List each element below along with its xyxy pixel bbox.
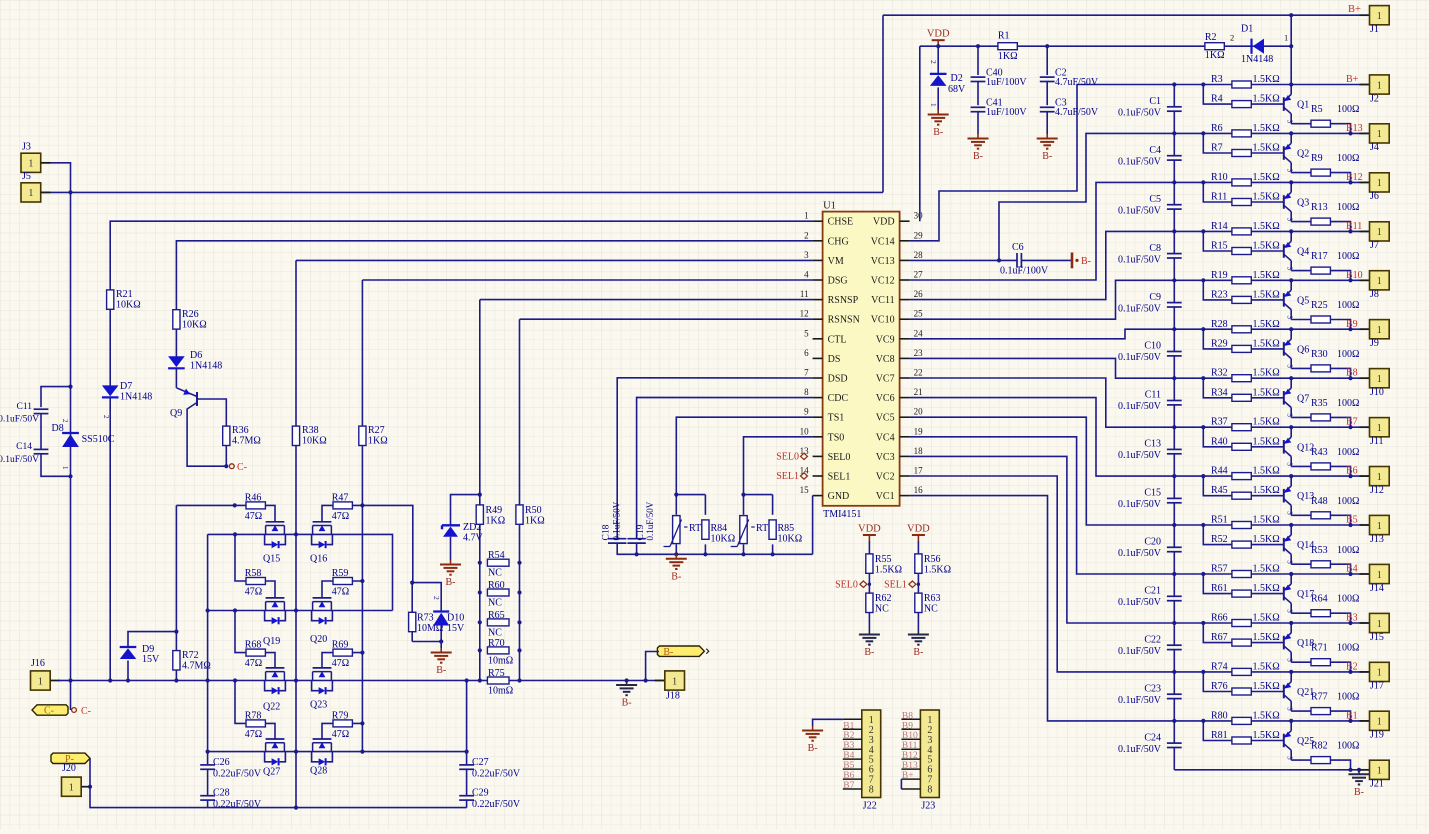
svg-text:R14: R14 bbox=[1211, 221, 1228, 232]
resistor R79 47ohm bbox=[333, 720, 352, 727]
svg-text:J7: J7 bbox=[1370, 240, 1379, 251]
svg-text:D8: D8 bbox=[52, 423, 64, 434]
svg-text:R64: R64 bbox=[1311, 594, 1328, 605]
wire R26 to D6 bbox=[175, 329, 177, 357]
svg-text:1.5KΩ: 1.5KΩ bbox=[924, 565, 951, 576]
svg-text:10mΩ: 10mΩ bbox=[488, 686, 513, 697]
junction R65 left bbox=[478, 620, 482, 624]
transistor Q19 MOSFET bbox=[266, 597, 285, 599]
svg-text:D2: D2 bbox=[951, 73, 963, 84]
svg-text:100Ω: 100Ω bbox=[1337, 349, 1359, 360]
pin 26 VC11 bbox=[900, 299, 910, 301]
svg-text:28: 28 bbox=[914, 250, 924, 260]
svg-text:B8: B8 bbox=[902, 711, 913, 721]
svg-text:VDD: VDD bbox=[873, 217, 895, 228]
ground B- under C3 bbox=[1046, 134, 1048, 139]
pin 15 GND bbox=[813, 495, 823, 497]
svg-text:VC8: VC8 bbox=[876, 354, 895, 365]
connector J15 bbox=[1360, 622, 1370, 624]
pin 6 DS bbox=[813, 357, 823, 359]
junction rail1 x296 bbox=[294, 532, 298, 536]
wire VM pin3 to x=296 vertical bbox=[296, 259, 813, 261]
wire cell bus segment 3 bbox=[1173, 231, 1175, 253]
wire cell bus segment 7 bbox=[1173, 427, 1175, 449]
svg-text:1.5KΩ: 1.5KΩ bbox=[1253, 661, 1280, 672]
resistor R3 1.5K bbox=[1232, 81, 1251, 88]
junction Q18 collector bbox=[1289, 621, 1293, 625]
capacitor C19 0.1uF/50V bbox=[627, 538, 645, 540]
svg-text:R29: R29 bbox=[1211, 338, 1228, 349]
ground B- under D10 bbox=[440, 648, 442, 653]
wire pin30 VDD riser bbox=[919, 46, 921, 221]
junction Q14 collector bbox=[1289, 523, 1293, 527]
junction gate row4 rail bbox=[233, 678, 237, 682]
junction D10 bottom bbox=[439, 639, 443, 643]
svg-text:VC6: VC6 bbox=[876, 393, 895, 404]
pin 5 CTL bbox=[813, 338, 823, 340]
svg-text:47Ω: 47Ω bbox=[332, 658, 349, 669]
resistor R54 NC bbox=[487, 559, 509, 566]
resistor R44 1.5K bbox=[1232, 473, 1251, 480]
svg-text:B-: B- bbox=[913, 647, 923, 658]
wire R15 branch bbox=[1203, 231, 1232, 251]
svg-text:Q28: Q28 bbox=[310, 766, 327, 777]
wire cell row B10 bbox=[1174, 279, 1369, 281]
wire gate bus row3 left bbox=[235, 611, 275, 668]
pin 20 VC5 bbox=[900, 416, 910, 418]
wire ZD2 to R49 rail bbox=[451, 495, 480, 526]
svg-text:R48: R48 bbox=[1311, 496, 1328, 507]
pin 19 VC4 bbox=[900, 436, 910, 438]
resistor R5 100ohm bbox=[1291, 123, 1311, 125]
svg-text:C1: C1 bbox=[1149, 96, 1161, 107]
svg-text:1: 1 bbox=[1377, 374, 1382, 385]
svg-text:0.1uF/50V: 0.1uF/50V bbox=[0, 415, 39, 425]
svg-text:1.5KΩ: 1.5KΩ bbox=[1253, 270, 1280, 281]
svg-text:0.1uF/50V: 0.1uF/50V bbox=[1118, 646, 1162, 657]
capacitor C28 0.22uF/50V bbox=[200, 795, 215, 797]
svg-text:VC4: VC4 bbox=[876, 432, 895, 443]
svg-text:R80: R80 bbox=[1211, 710, 1228, 721]
transistor Q1 PNP bbox=[1283, 97, 1285, 111]
svg-text:0.1uF/50V: 0.1uF/50V bbox=[1118, 205, 1162, 216]
resistor R69 47ohm bbox=[333, 649, 352, 656]
svg-text:1.5KΩ: 1.5KΩ bbox=[1253, 564, 1280, 575]
wire VC13 pin28 stub to C6 node bbox=[910, 259, 999, 261]
wire rail2 bbox=[208, 610, 393, 612]
svg-text:R58: R58 bbox=[245, 568, 262, 579]
junction Q25 collector bbox=[1289, 719, 1293, 723]
svg-text:R73: R73 bbox=[417, 613, 434, 624]
flag B- net bbox=[657, 646, 704, 656]
svg-text:SEL1: SEL1 bbox=[828, 472, 851, 483]
wire R13 out jog bbox=[1330, 222, 1350, 232]
junction R70 left bbox=[478, 648, 482, 652]
svg-text:R69: R69 bbox=[332, 640, 349, 651]
svg-text:0.1uF/50V: 0.1uF/50V bbox=[612, 501, 622, 540]
transistor Q27 MOSFET bbox=[266, 738, 285, 740]
svg-text:B12: B12 bbox=[1346, 172, 1363, 183]
wire J20 stub bbox=[81, 786, 90, 788]
pin 14 SEL1 bbox=[813, 475, 823, 477]
svg-text:C14: C14 bbox=[16, 442, 32, 452]
svg-text:VC10: VC10 bbox=[871, 315, 895, 326]
resistor R81 1.5K bbox=[1232, 737, 1251, 744]
junction gate row3 right bbox=[360, 651, 364, 655]
resistor R56 1.5K bbox=[915, 554, 922, 573]
wire cell bus segment 12 bbox=[1173, 672, 1175, 694]
svg-text:1: 1 bbox=[1377, 11, 1382, 22]
svg-text:R44: R44 bbox=[1211, 466, 1228, 477]
svg-text:VC11: VC11 bbox=[871, 295, 895, 306]
svg-text:R76: R76 bbox=[1211, 681, 1228, 692]
wire cell bus segment 1 bbox=[1173, 133, 1175, 155]
pin 12 RSNSN bbox=[813, 318, 823, 320]
capacitor C5 0.1uF/50V bbox=[1167, 204, 1182, 206]
capacitor C40 1uF/100V bbox=[977, 46, 979, 75]
svg-text:47Ω: 47Ω bbox=[332, 587, 349, 598]
wire gate bus row2 right bbox=[322, 581, 362, 598]
junction bus row 9 bbox=[1172, 523, 1176, 527]
junction RT2 node bbox=[741, 493, 745, 497]
svg-text:R75: R75 bbox=[488, 668, 505, 679]
svg-text:R82: R82 bbox=[1311, 741, 1328, 752]
junction R72 bus bbox=[174, 678, 178, 682]
svg-text:J2: J2 bbox=[1370, 93, 1379, 104]
svg-text:Q2: Q2 bbox=[1297, 149, 1309, 160]
svg-text:VDD: VDD bbox=[907, 524, 930, 535]
svg-text:10KΩ: 10KΩ bbox=[302, 436, 327, 447]
svg-text:R43: R43 bbox=[1311, 447, 1328, 458]
svg-text:B1: B1 bbox=[1346, 710, 1358, 721]
junction pair split 3 bbox=[1201, 229, 1205, 233]
ground B- at J18 bbox=[626, 681, 628, 686]
wire cell row B8 bbox=[1174, 377, 1369, 379]
wire drain column x=207.6 bbox=[207, 534, 209, 765]
svg-text:0.1uF/50V: 0.1uF/50V bbox=[1118, 352, 1162, 363]
svg-text:Q15: Q15 bbox=[263, 554, 280, 565]
svg-text:B-: B- bbox=[446, 577, 456, 588]
svg-text:0.22uF/50V: 0.22uF/50V bbox=[213, 769, 262, 780]
junction R54 right bbox=[517, 561, 521, 565]
svg-text:C20: C20 bbox=[1144, 537, 1161, 548]
svg-text:1.5KΩ: 1.5KΩ bbox=[1253, 485, 1280, 496]
svg-text:C10: C10 bbox=[1144, 341, 1161, 352]
svg-text:1.5KΩ: 1.5KΩ bbox=[1253, 387, 1280, 398]
wire left vertical x=70.5 down to J16 bus bbox=[70, 192, 72, 680]
svg-text:C24: C24 bbox=[1144, 732, 1161, 743]
svg-text:1N4148: 1N4148 bbox=[1241, 54, 1273, 65]
ground B- under J21 bbox=[1358, 770, 1360, 775]
junction pair split 8 bbox=[1201, 474, 1205, 478]
svg-text:R74: R74 bbox=[1211, 661, 1228, 672]
svg-text:1KΩ: 1KΩ bbox=[525, 516, 545, 527]
connector J21 bbox=[1360, 769, 1370, 771]
resistor R53 100ohm bbox=[1291, 563, 1311, 565]
resistor R35 100ohm bbox=[1291, 416, 1311, 418]
junction rail4 x296 bbox=[294, 750, 298, 754]
svg-text:100Ω: 100Ω bbox=[1337, 153, 1359, 164]
wire cell bus segment 6 bbox=[1173, 378, 1175, 400]
wire R40 branch bbox=[1203, 427, 1232, 447]
svg-text:D1: D1 bbox=[1241, 24, 1253, 35]
svg-text:1.5KΩ: 1.5KΩ bbox=[1253, 143, 1280, 154]
zener ZD2 4.7V bbox=[442, 524, 460, 526]
svg-text:1: 1 bbox=[1377, 766, 1382, 777]
junction RT2 bus bbox=[741, 552, 745, 556]
connector J19 bbox=[1360, 720, 1370, 722]
transistor Q6 PNP bbox=[1283, 342, 1285, 356]
connector J14 bbox=[1360, 573, 1370, 575]
svg-text:B9: B9 bbox=[902, 721, 913, 731]
junction gate row4 right bbox=[360, 721, 364, 725]
capacitor C10 0.1uF/50V bbox=[1167, 351, 1182, 353]
transistor Q14 PNP bbox=[1283, 538, 1285, 552]
junction x296 bus807 bbox=[294, 806, 298, 810]
junction out 6 bbox=[1348, 425, 1352, 429]
svg-text:SS510C: SS510C bbox=[82, 434, 115, 445]
pin 8 CDC bbox=[813, 397, 823, 399]
svg-text:B3: B3 bbox=[843, 741, 854, 751]
transistor Q18 PNP bbox=[1283, 636, 1285, 650]
junction R75 left bbox=[478, 678, 482, 682]
junction bus row 2 bbox=[1172, 180, 1176, 184]
junction pair split 5 bbox=[1201, 327, 1205, 331]
svg-text:R81: R81 bbox=[1211, 730, 1228, 741]
net port SEL0 bbox=[860, 581, 867, 587]
svg-text:R60: R60 bbox=[488, 580, 505, 591]
wire B- bottom row to J21 bbox=[1174, 769, 1369, 771]
wire TS1 pin9 to RT1 node bbox=[676, 417, 812, 494]
wire cell bus segment 0 bbox=[1173, 85, 1175, 107]
svg-text:VC9: VC9 bbox=[876, 334, 895, 345]
connector J23 header bbox=[920, 710, 939, 798]
wire cell row B2 bbox=[1174, 671, 1369, 673]
svg-text:C8: C8 bbox=[1149, 243, 1161, 254]
capacitor C27 0.22uF/50V bbox=[459, 764, 474, 766]
junction Q5 collector bbox=[1289, 278, 1293, 282]
diode D6 1N4148 bbox=[168, 367, 185, 369]
wire rail4 bbox=[208, 751, 467, 753]
capacitor C6 0.1uF/100V bbox=[999, 259, 1017, 261]
svg-text:4.7uF/50V: 4.7uF/50V bbox=[1055, 107, 1099, 118]
svg-text:1.5KΩ: 1.5KΩ bbox=[1253, 436, 1280, 447]
svg-text:1: 1 bbox=[1284, 33, 1288, 43]
junction x207 rail2 bbox=[206, 608, 210, 612]
wire C19 bottom lead bbox=[636, 543, 638, 554]
junction bus row 3 bbox=[1172, 229, 1176, 233]
svg-text:1N4148: 1N4148 bbox=[190, 361, 222, 372]
resistor R51 1.5K bbox=[1232, 522, 1251, 529]
wire VC11 to row B12 bbox=[910, 182, 1175, 280]
resistor R10 1.5K bbox=[1232, 179, 1251, 186]
svg-text:1: 1 bbox=[28, 188, 33, 199]
connector J11 bbox=[1360, 426, 1370, 428]
svg-text:R36: R36 bbox=[232, 425, 249, 436]
svg-text:14: 14 bbox=[800, 466, 810, 476]
wire TS0 pin10 to RT2 node bbox=[744, 437, 813, 495]
junction bus row 11 bbox=[1172, 621, 1176, 625]
svg-text:1.5KΩ: 1.5KΩ bbox=[1253, 613, 1280, 624]
svg-text:B-: B- bbox=[864, 647, 874, 658]
svg-text:0.1uF/50V: 0.1uF/50V bbox=[1118, 303, 1162, 314]
resistor R15 1.5K bbox=[1232, 248, 1251, 255]
svg-text:1.5KΩ: 1.5KΩ bbox=[1253, 466, 1280, 477]
junction R60 left bbox=[478, 590, 482, 594]
svg-text:Q6: Q6 bbox=[1297, 344, 1309, 355]
svg-text:C13: C13 bbox=[1144, 439, 1161, 450]
svg-text:J19: J19 bbox=[1370, 730, 1384, 741]
wire R45 branch bbox=[1203, 476, 1232, 496]
svg-text:1.5KΩ: 1.5KΩ bbox=[1253, 515, 1280, 526]
transistor Q3 PNP bbox=[1283, 195, 1285, 209]
wire DSD pin7 to C18 bbox=[617, 378, 812, 539]
svg-text:C28: C28 bbox=[213, 788, 230, 799]
svg-text:1: 1 bbox=[804, 211, 809, 221]
svg-text:1.5KΩ: 1.5KΩ bbox=[1253, 338, 1280, 349]
junction D9 bus bbox=[126, 678, 130, 682]
svg-text:1: 1 bbox=[28, 159, 33, 170]
wire GND pin15 to B- bus bbox=[812, 496, 814, 555]
svg-text:16: 16 bbox=[914, 485, 924, 495]
svg-text:R6: R6 bbox=[1211, 123, 1223, 134]
resistor R45 1.5K bbox=[1232, 492, 1251, 499]
junction gate row1 bbox=[233, 503, 237, 507]
junction Q2 collector bbox=[1289, 131, 1293, 135]
svg-text:VC13: VC13 bbox=[871, 256, 895, 267]
resistor R64 100ohm bbox=[1291, 612, 1311, 614]
wire cell row B4 bbox=[1174, 573, 1369, 575]
junction VC13/C6 bbox=[997, 258, 1001, 262]
svg-text:SEL0: SEL0 bbox=[776, 451, 799, 462]
wire VC pin row 14 to row 13 bbox=[910, 496, 1175, 721]
wire R35 out jog bbox=[1330, 417, 1350, 427]
junction B- flag bus bbox=[644, 678, 648, 682]
svg-text:R72: R72 bbox=[182, 650, 199, 661]
junction bus row 0 bbox=[1172, 82, 1176, 86]
svg-text:R17: R17 bbox=[1311, 251, 1328, 262]
wire cell row B11 bbox=[1174, 230, 1369, 232]
wire R63 to ground bbox=[917, 613, 919, 631]
junction VDD bbox=[936, 44, 940, 48]
svg-text:100Ω: 100Ω bbox=[1337, 104, 1359, 115]
wire VDD to R55 bbox=[868, 541, 870, 554]
wire gate bus row1 left bbox=[176, 505, 275, 521]
junction R60 right bbox=[517, 590, 521, 594]
wire R61 branch bbox=[1203, 574, 1232, 594]
svg-text:J11: J11 bbox=[1370, 436, 1384, 447]
svg-text:R38: R38 bbox=[302, 425, 319, 436]
svg-text:B5: B5 bbox=[843, 761, 854, 771]
svg-text:C-: C- bbox=[44, 706, 54, 717]
junction pair split 10 bbox=[1201, 572, 1205, 576]
pin 18 VC3 bbox=[900, 455, 910, 457]
svg-text:GND: GND bbox=[828, 491, 850, 502]
wire gate bus row4 right bbox=[322, 723, 362, 739]
svg-text:0.1uF/50V: 0.1uF/50V bbox=[1118, 108, 1162, 119]
resistor R46 47ohm bbox=[246, 502, 265, 509]
pin 9 TS1 bbox=[813, 416, 823, 418]
ground B- under ZD2 bbox=[450, 560, 452, 565]
connector J18 bbox=[655, 680, 665, 682]
junction D8 bottom bbox=[68, 474, 72, 478]
svg-text:100Ω: 100Ω bbox=[1337, 398, 1359, 409]
svg-text:B-: B- bbox=[933, 127, 943, 138]
connector J6 bbox=[1360, 181, 1370, 183]
svg-text:R19: R19 bbox=[1211, 270, 1228, 281]
junction R84 bus bbox=[703, 552, 707, 556]
wire VC10 to row B11 bbox=[910, 231, 1175, 299]
svg-text:0.1uF/50V: 0.1uF/50V bbox=[1118, 156, 1162, 167]
svg-text:1: 1 bbox=[1377, 472, 1382, 483]
junction gate row2 right bbox=[360, 579, 364, 583]
connector J8 bbox=[1360, 279, 1370, 281]
svg-text:0.1uF/50V: 0.1uF/50V bbox=[645, 501, 655, 540]
svg-text:B-: B- bbox=[671, 571, 681, 582]
wire RSNSP pin11 to R49 rail bbox=[480, 299, 813, 301]
resistor R30 100ohm bbox=[1291, 367, 1311, 369]
svg-text:1: 1 bbox=[929, 103, 938, 107]
resistor R62 NC bbox=[866, 593, 873, 612]
wire gate bus row1 right bbox=[322, 505, 362, 521]
svg-text:0.1uF/50V: 0.1uF/50V bbox=[1118, 401, 1162, 412]
svg-text:R84: R84 bbox=[711, 523, 728, 534]
wire R30 out jog bbox=[1330, 368, 1350, 378]
svg-text:D6: D6 bbox=[190, 350, 202, 361]
resistor R68 47ohm bbox=[246, 649, 265, 656]
svg-text:100Ω: 100Ω bbox=[1337, 300, 1359, 311]
wire R52 to Q14 base bbox=[1251, 544, 1284, 546]
junction bus row 8 bbox=[1172, 474, 1176, 478]
wire cell row B13 bbox=[1174, 132, 1369, 134]
svg-text:1.5KΩ: 1.5KΩ bbox=[1253, 534, 1280, 545]
resistor R2 1K bbox=[1205, 43, 1224, 50]
svg-text:C5: C5 bbox=[1149, 194, 1161, 205]
ground B- sense bus bbox=[675, 554, 677, 559]
svg-text:1N4148: 1N4148 bbox=[120, 392, 152, 403]
svg-text:DS: DS bbox=[828, 354, 841, 365]
capacitor C2 4.7uF/50V bbox=[1046, 46, 1048, 75]
junction J21 ground tap bbox=[1357, 768, 1361, 772]
wire cell row B9 bbox=[1174, 328, 1369, 330]
wire R61 to Q17 base bbox=[1251, 593, 1284, 595]
svg-text:R57: R57 bbox=[1211, 564, 1228, 575]
svg-text:12: 12 bbox=[800, 309, 809, 319]
junction ground tap bus bbox=[625, 678, 629, 682]
svg-text:RSNSN: RSNSN bbox=[828, 315, 860, 326]
capacitor C4 0.1uF/50V bbox=[1167, 155, 1182, 157]
svg-text:C11: C11 bbox=[17, 402, 33, 412]
junction out 1 bbox=[1348, 180, 1352, 184]
svg-text:R40: R40 bbox=[1211, 436, 1228, 447]
wire R9 out jog bbox=[1330, 173, 1350, 183]
svg-text:C29: C29 bbox=[472, 788, 489, 799]
junction out 7 bbox=[1348, 474, 1352, 478]
svg-text:VC2: VC2 bbox=[876, 472, 895, 483]
wire cell row B3 bbox=[1174, 622, 1369, 624]
wire cell bus segment 13 bbox=[1173, 721, 1175, 743]
junction bus row 4 bbox=[1172, 278, 1176, 282]
junction Q4 collector bbox=[1289, 229, 1293, 233]
svg-text:CHSE: CHSE bbox=[828, 217, 854, 228]
svg-text:J21: J21 bbox=[1370, 779, 1384, 790]
svg-text:J22: J22 bbox=[863, 801, 877, 812]
svg-text:100Ω: 100Ω bbox=[1337, 251, 1359, 262]
svg-text:C21: C21 bbox=[1144, 586, 1161, 597]
ground B- under R62 bbox=[868, 630, 870, 635]
svg-text:0.1uF/50V: 0.1uF/50V bbox=[1118, 499, 1162, 510]
pin 13 SEL0 bbox=[813, 455, 823, 457]
